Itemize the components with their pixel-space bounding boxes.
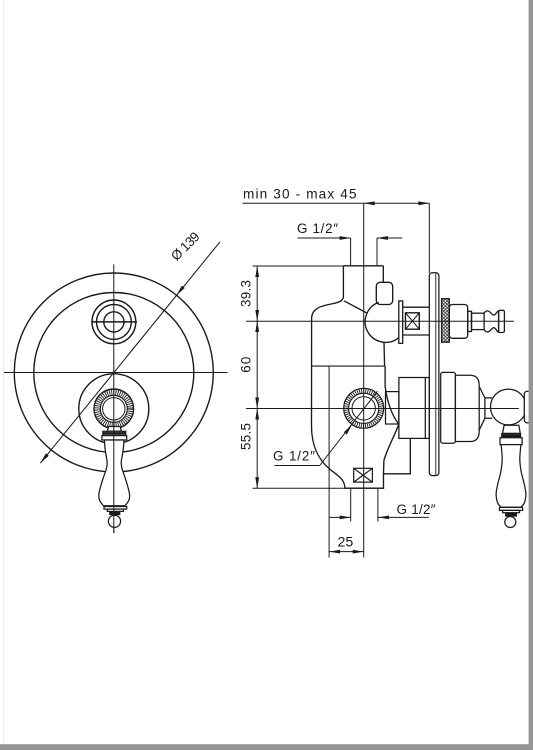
svg-text:G 1/2″: G 1/2″ — [397, 502, 436, 517]
svg-text:55.5: 55.5 — [239, 423, 254, 450]
svg-text:39.3: 39.3 — [239, 280, 254, 307]
svg-text:25: 25 — [338, 534, 354, 550]
svg-text:60: 60 — [239, 357, 254, 373]
svg-text:G 1/2″: G 1/2″ — [273, 449, 315, 464]
svg-text:G 1/2″: G 1/2″ — [297, 221, 338, 236]
svg-text:min 30 - max 45: min 30 - max 45 — [243, 187, 357, 202]
